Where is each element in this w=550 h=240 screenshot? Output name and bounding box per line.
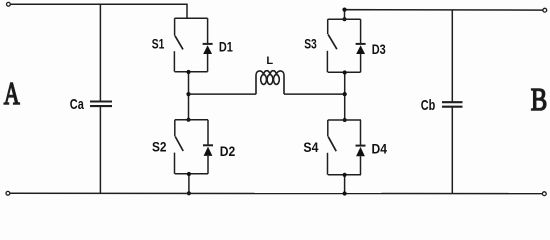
diode D3 (356, 19, 366, 72)
switch S3 (327, 19, 360, 72)
junction S1 bottom (186, 70, 190, 74)
switch S4 (328, 120, 362, 175)
terminal A+ (top-left circle) (6, 2, 10, 6)
svg-text:D1: D1 (219, 38, 233, 54)
svg-text:D4: D4 (372, 141, 388, 157)
svg-text:S2: S2 (152, 138, 167, 154)
wire top-left rail (10, 4, 187, 18)
junction S3 top (342, 17, 346, 21)
terminal A- (bottom-left circle) (6, 191, 10, 195)
svg-text:D2: D2 (220, 143, 236, 159)
junction S4 top (343, 118, 347, 122)
junction top-right rail start (342, 8, 346, 12)
svg-text:Ca: Ca (70, 96, 84, 113)
node left midpoint junction (186, 92, 190, 96)
svg-text:S4: S4 (303, 139, 318, 155)
terminal B- (bottom-right circle) (542, 192, 546, 196)
wire Ca bottom (99, 106, 101, 193)
diode D4 (356, 120, 366, 175)
switch S2 (175, 120, 209, 174)
wire Cb bottom (451, 107, 453, 194)
switch S1 (174, 18, 207, 71)
wire Ca top (99, 4, 101, 101)
wire node to inductor left (189, 93, 257, 95)
svg-text:L: L (266, 55, 273, 67)
svg-text:Cb: Cb (421, 97, 436, 114)
capacitor Cb (442, 102, 463, 107)
svg-text:B: B (531, 81, 548, 117)
terminal B+ (top-right circle) (543, 8, 547, 12)
svg-text:A: A (4, 75, 20, 111)
wire S2 to bottom rail (188, 174, 190, 194)
wire S3 to mid node (344, 72, 346, 120)
diode D1 (203, 18, 213, 71)
diode D2 (203, 120, 213, 174)
wire inductor right to node (284, 93, 345, 95)
wire top-right rail (345, 10, 543, 20)
junction bottom rail right (343, 191, 347, 195)
junction S2 bottom (187, 172, 191, 176)
wire bottom rail (10, 192, 543, 194)
capacitor Ca (90, 102, 112, 107)
wire S4 to bottom rail (344, 175, 346, 194)
junction S2 top (187, 118, 191, 122)
node right midpoint junction (343, 92, 347, 96)
junction bottom rail left (187, 191, 191, 195)
inductor L (256, 71, 284, 94)
junction S4 bottom (343, 173, 347, 177)
svg-text:S1: S1 (152, 35, 165, 51)
svg-text:S3: S3 (304, 35, 317, 51)
svg-text:D3: D3 (372, 41, 386, 57)
wire S1 to mid node (188, 72, 190, 120)
junction S3 bottom (343, 70, 347, 74)
wire Cb top (451, 10, 453, 102)
